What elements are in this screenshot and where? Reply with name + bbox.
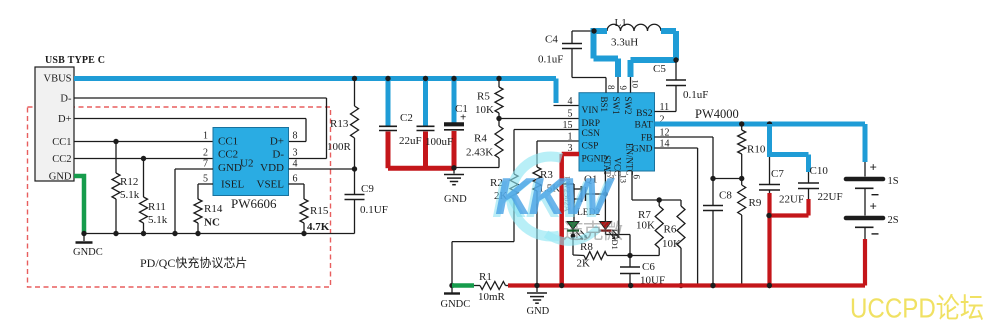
svg-text:BAT: BAT xyxy=(635,121,653,131)
svg-text:R5: R5 xyxy=(477,91,490,103)
svg-text:CC2: CC2 xyxy=(52,154,71,165)
svg-text:NC: NC xyxy=(204,217,220,229)
svg-text:C6: C6 xyxy=(642,261,655,273)
svg-text:UCCPD论坛: UCCPD论坛 xyxy=(850,293,984,324)
svg-text:C5: C5 xyxy=(653,63,666,75)
svg-text:0.1uF: 0.1uF xyxy=(538,54,563,66)
svg-text:GND: GND xyxy=(444,194,467,205)
svg-text:U2: U2 xyxy=(240,158,253,170)
svg-text:R6: R6 xyxy=(664,224,677,236)
svg-text:R4: R4 xyxy=(474,133,487,145)
svg-text:R14: R14 xyxy=(204,203,223,215)
svg-text:10K: 10K xyxy=(636,220,655,232)
svg-text:2.43K: 2.43K xyxy=(466,147,493,159)
svg-text:100R: 100R xyxy=(327,141,352,153)
svg-text:KKW: KKW xyxy=(495,168,615,226)
svg-text:GNDC: GNDC xyxy=(441,299,471,310)
svg-text:C2: C2 xyxy=(400,112,413,124)
svg-text:22uF: 22uF xyxy=(399,135,422,147)
svg-text:CSP: CSP xyxy=(582,142,599,152)
svg-text:R1: R1 xyxy=(479,271,492,283)
svg-text:22UF: 22UF xyxy=(779,194,804,206)
svg-text:5: 5 xyxy=(203,174,208,185)
svg-text:R13: R13 xyxy=(330,118,349,130)
svg-text:0.1uF: 0.1uF xyxy=(683,89,708,101)
svg-text:10: 10 xyxy=(630,80,640,89)
svg-text:GND: GND xyxy=(49,172,72,183)
svg-text:PW4000: PW4000 xyxy=(695,107,739,121)
svg-text:4: 4 xyxy=(293,159,298,170)
svg-text:4: 4 xyxy=(568,96,573,107)
svg-text:D+: D+ xyxy=(270,136,284,148)
svg-text:8: 8 xyxy=(606,85,616,90)
svg-text:5.1k: 5.1k xyxy=(148,214,168,226)
svg-text:5.1k: 5.1k xyxy=(120,189,140,201)
svg-text:1: 1 xyxy=(568,132,573,143)
svg-text:VCC: VCC xyxy=(612,158,622,177)
svg-text:R12: R12 xyxy=(120,176,138,188)
svg-text:10K: 10K xyxy=(662,238,681,250)
svg-text:ISEL: ISEL xyxy=(221,179,245,191)
svg-text:+: + xyxy=(870,199,877,214)
svg-text:13: 13 xyxy=(618,175,628,184)
svg-text:R15: R15 xyxy=(310,205,329,217)
svg-text:8: 8 xyxy=(293,131,298,142)
svg-text:10K: 10K xyxy=(475,104,494,116)
svg-text:PD/QC快充协议芯片: PD/QC快充协议芯片 xyxy=(140,255,247,270)
svg-text:EN/NTC: EN/NTC xyxy=(625,143,635,176)
svg-text:9: 9 xyxy=(618,86,628,91)
svg-text:0.1UF: 0.1UF xyxy=(360,204,388,216)
svg-text:BS2: BS2 xyxy=(636,109,653,119)
svg-text:FB: FB xyxy=(641,134,653,144)
svg-text:3: 3 xyxy=(293,148,298,159)
svg-text:7: 7 xyxy=(203,159,208,170)
svg-text:VSEL: VSEL xyxy=(257,179,285,191)
svg-text:L1: L1 xyxy=(615,17,627,29)
svg-text:2: 2 xyxy=(203,148,208,159)
svg-text:4.7K: 4.7K xyxy=(307,221,330,233)
svg-text:22UF: 22UF xyxy=(818,191,843,203)
svg-text:USB TYPE C: USB TYPE C xyxy=(45,55,105,66)
svg-text:3.3uH: 3.3uH xyxy=(611,37,638,49)
svg-text:SW1: SW1 xyxy=(611,97,621,115)
svg-text:CC1: CC1 xyxy=(218,136,238,148)
svg-text:+: + xyxy=(870,160,877,175)
svg-text:D-: D- xyxy=(60,94,72,105)
svg-text:R11: R11 xyxy=(148,201,166,213)
svg-text:D-: D- xyxy=(272,149,284,161)
svg-text:C10: C10 xyxy=(810,165,829,177)
svg-text:R9: R9 xyxy=(749,197,762,209)
svg-text:PW6606: PW6606 xyxy=(231,196,277,211)
svg-text:VIN: VIN xyxy=(582,106,599,116)
svg-text:C9: C9 xyxy=(361,183,374,195)
svg-text:2K: 2K xyxy=(577,258,591,270)
svg-text:CC1: CC1 xyxy=(52,137,71,148)
svg-text:1: 1 xyxy=(203,131,208,142)
svg-text:C8: C8 xyxy=(719,190,732,202)
svg-text:BS1: BS1 xyxy=(599,97,609,113)
svg-text:C7: C7 xyxy=(771,168,784,180)
svg-text:10mR: 10mR xyxy=(478,291,506,303)
svg-text:DRP: DRP xyxy=(582,119,600,129)
svg-text:+: + xyxy=(460,112,466,124)
svg-text:5: 5 xyxy=(568,109,573,120)
svg-text:GND: GND xyxy=(218,162,242,174)
svg-text:D+: D+ xyxy=(58,114,72,125)
svg-text:VBUS: VBUS xyxy=(43,74,71,85)
svg-text:CC2: CC2 xyxy=(218,149,238,161)
svg-text:6: 6 xyxy=(632,175,642,180)
svg-text:6: 6 xyxy=(293,174,298,185)
svg-text:2S: 2S xyxy=(888,215,899,226)
svg-text:R10: R10 xyxy=(747,144,766,156)
svg-text:C4: C4 xyxy=(545,34,558,46)
svg-text:CSN: CSN xyxy=(582,129,601,139)
svg-text:VDD: VDD xyxy=(260,162,284,174)
svg-text:SW2: SW2 xyxy=(623,97,633,115)
svg-text:15: 15 xyxy=(563,120,573,131)
svg-text:GND: GND xyxy=(527,306,550,317)
svg-text:100uF: 100uF xyxy=(425,136,453,148)
svg-text:GNDC: GNDC xyxy=(73,247,103,258)
svg-text:1S: 1S xyxy=(888,176,899,187)
